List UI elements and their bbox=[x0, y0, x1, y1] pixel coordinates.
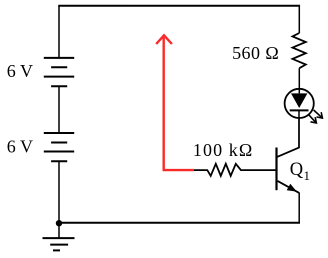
ground symbol bbox=[43, 238, 75, 250]
wire: emitter vertical bbox=[298, 193, 300, 224]
wire: left vertical from top rail down to battery B1 bbox=[58, 6, 60, 58]
wire: between battery B1 and battery B2 bbox=[58, 86, 60, 133]
battery B1 plate long top bbox=[44, 57, 74, 59]
wire: 560-ohm resistor to LED anode bbox=[298, 68, 300, 93]
LED light arrow upper bbox=[314, 110, 323, 118]
svg-text:6 V: 6 V bbox=[7, 137, 33, 157]
wire: top rail bbox=[58, 5, 300, 7]
svg-text:6 V: 6 V bbox=[7, 61, 33, 81]
resistor R2 100 kOhm (base resistor) with wire to base bbox=[194, 164, 277, 176]
wire: right vertical from top rail to 560-ohm resistor bbox=[298, 6, 300, 33]
transistor Q1 base bar bbox=[275, 148, 277, 191]
svg-text:1: 1 bbox=[304, 168, 311, 183]
transistor Q1 collector lead to LED bbox=[277, 148, 300, 158]
red probe arrow (measurement) shaft bbox=[164, 38, 194, 171]
junction dot at bottom node bbox=[56, 220, 62, 226]
svg-text:100 kΩ: 100 kΩ bbox=[193, 140, 253, 160]
battery B2 plate long bottom bbox=[44, 151, 74, 153]
svg-text:560 Ω: 560 Ω bbox=[232, 43, 279, 63]
wire: bottom rail bbox=[58, 222, 300, 224]
battery B2 plate short bottom bbox=[51, 160, 67, 162]
wire: LED cathode down to collector corner bbox=[298, 110, 300, 148]
battery B2 plate short bbox=[51, 142, 67, 144]
resistor R1 560 ohm (collector resistor) bbox=[293, 33, 306, 68]
battery B2 plate long top bbox=[44, 132, 74, 134]
battery B1 plate long bottom bbox=[44, 76, 74, 78]
emitter arrowhead of Q1 bbox=[287, 184, 297, 192]
battery B1 plate short bottom bbox=[51, 85, 67, 87]
LED D1 circle bbox=[285, 89, 314, 118]
red probe arrowhead bbox=[156, 35, 172, 44]
LED D1 triangle (anode) bbox=[291, 93, 307, 108]
svg-text:Q: Q bbox=[290, 160, 304, 180]
transistor Q1 emitter diagonal bbox=[278, 181, 300, 193]
wire: battery B2 to ground bbox=[58, 161, 60, 238]
LED light arrow lower bbox=[308, 114, 316, 123]
battery B1 plate short bbox=[51, 66, 67, 68]
LED D1 cathode bar bbox=[290, 109, 309, 111]
